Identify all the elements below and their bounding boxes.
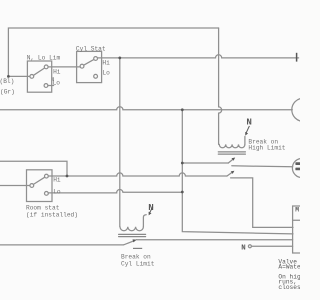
arrowhead high-limit blade 2 bbox=[231, 171, 235, 174]
wire: top rail L2 from left vertical to right vertical bbox=[8, 28, 218, 76]
contact: N,Lo Lim Hi terminal bbox=[44, 65, 48, 69]
wire: bottom N line to relay box bbox=[252, 245, 293, 247]
wire: vertical x182.3 from y110 line down, corner to relay box bbox=[182, 110, 293, 234]
contact: Room stat Lo terminal bbox=[45, 192, 49, 196]
svg-text:Hi: Hi bbox=[53, 177, 61, 184]
arrow shaft N high limit bbox=[246, 126, 249, 133]
heater core cyl limit bbox=[119, 234, 146, 236]
wire: tick above Lo label bbox=[52, 78, 54, 81]
svg-text:Room stat: Room stat bbox=[26, 204, 60, 211]
arrowhead cyl-limit blade bbox=[133, 239, 137, 242]
relay box internal divider bbox=[293, 219, 306, 221]
wire: left line into room stat common bbox=[0, 185, 30, 187]
wire: bottom left line to cyl-limit switch pivot bbox=[0, 244, 123, 246]
switch blade cyl-limit thermal contact bbox=[123, 241, 134, 245]
tick under cyl-limit arrowhead bbox=[133, 247, 142, 249]
wire: cyl-limit switch output to relay box bbox=[137, 239, 293, 241]
wire: N,Lo Lim Hi out to Cyl Stat common bbox=[48, 66, 80, 68]
switch blade N,Lo Lim closed to Hi bbox=[34, 68, 45, 75]
valve motor circle upper bbox=[292, 98, 315, 121]
relay terminal box M bbox=[293, 206, 307, 253]
node room stat Lo junction bbox=[181, 191, 184, 194]
wire: high-limit switch 1 input from x182.3 bbox=[182, 162, 228, 164]
wire: high-limit switch 1 output to motor circle bbox=[232, 166, 293, 167]
contact: Cyl Stat Hi terminal bbox=[94, 57, 98, 61]
wire: long line y110, hop over x119.8 vertical, to valve motor circle bbox=[0, 107, 292, 110]
node high-limit switch feed junction bbox=[181, 162, 184, 165]
switch box Room stat bbox=[27, 170, 53, 202]
contact: Cyl Stat common pole bbox=[80, 64, 84, 68]
svg-text:N, Lo Lim: N, Lo Lim bbox=[27, 54, 61, 61]
contact: Room stat common pole bbox=[30, 184, 34, 188]
heater coil cyl limit bbox=[120, 227, 143, 231]
heater coil high limit bbox=[219, 144, 245, 147]
svg-text:(Bl): (Bl) bbox=[0, 78, 14, 85]
svg-text:N: N bbox=[148, 202, 154, 213]
wire: high-limit heater right lead up to N arrow bbox=[244, 136, 246, 144]
terminal bar at right end of Cyl Stat Hi wire bbox=[296, 53, 298, 62]
arrowhead high-limit blade 1 bbox=[232, 158, 236, 161]
wire: right vertical drop from top rail, hops over y110 line, down to high-limit heater bbox=[219, 28, 222, 144]
node room stat Hi junction bbox=[66, 175, 69, 178]
svg-text:Lo: Lo bbox=[53, 79, 61, 86]
wire: cyl-limit heater right lead up to N arrow bbox=[143, 215, 146, 227]
node y110/x182 junction bbox=[181, 108, 184, 111]
wire: Room stat Hi out, hops over x119.8 and x182.3, to high-limit switch 2 bbox=[48, 173, 227, 176]
switch blade high-limit contact 1 bbox=[228, 159, 233, 163]
node Cyl Stat Hi junction bbox=[118, 57, 121, 60]
contact: Cyl Stat Lo terminal bbox=[94, 74, 98, 78]
motor circle 2 inner bars bbox=[295, 162, 300, 170]
switch box Cyl Stat bbox=[77, 51, 102, 82]
svg-text:Lo: Lo bbox=[53, 188, 61, 195]
contact: Room stat Hi terminal bbox=[45, 174, 49, 178]
arrowhead N high limit bbox=[245, 132, 248, 136]
svg-text:closes: closes bbox=[278, 284, 300, 291]
svg-text:High Limit: High Limit bbox=[248, 145, 285, 152]
svg-text:(Gr): (Gr) bbox=[0, 89, 15, 96]
valve motor circle lower bbox=[292, 158, 311, 177]
switch box N, Lo Lim bbox=[27, 61, 51, 92]
wire: vertical from Cyl Stat Hi junction down to cyl-limit heater coil bbox=[119, 58, 121, 227]
contact: N,Lo Lim Lo terminal bbox=[44, 84, 48, 88]
arrow shaft N cyl limit bbox=[150, 207, 153, 213]
contact: N,Lo Lim common pole bbox=[30, 75, 34, 79]
svg-text:A=Wate: A=Wate bbox=[278, 264, 300, 271]
svg-text:Hi: Hi bbox=[53, 68, 61, 75]
svg-text:(if installed): (if installed) bbox=[26, 212, 78, 219]
switch blade Cyl Stat closed to Hi bbox=[84, 60, 94, 66]
wire: lead from N arrow to high-limit coil bbox=[244, 136, 246, 138]
switch blade high-limit contact 2 bbox=[227, 172, 233, 176]
arrowhead N cyl limit bbox=[149, 212, 152, 216]
svg-text:M: M bbox=[295, 207, 299, 214]
svg-text:Cyl Stat: Cyl Stat bbox=[76, 45, 106, 52]
wire: high-limit switch 2 output, corner down x252.7, to relay box top wire bbox=[231, 178, 293, 228]
svg-text:Lo: Lo bbox=[102, 70, 110, 77]
svg-text:N: N bbox=[241, 244, 245, 252]
svg-text:Hi: Hi bbox=[102, 60, 110, 67]
wire: stub from N,Lo Lim Lo terminal bbox=[48, 85, 54, 87]
heater core high limit bbox=[218, 152, 245, 154]
wire: Cyl Stat Hi out, junction at x119.8, hop over x218.6 vertical, to right edge terminal bbox=[98, 55, 299, 58]
wire: from (Bl) junction to N,Lo Lim common bbox=[8, 75, 30, 77]
svg-text:Cyl Limit: Cyl Limit bbox=[121, 260, 155, 267]
wire: left line y161 cornering down to room stat Hi junction bbox=[0, 161, 67, 176]
node (Bl) junction bbox=[7, 75, 10, 78]
svg-text:N: N bbox=[246, 116, 252, 127]
switch blade Room stat closed to Hi bbox=[33, 177, 44, 184]
wire: Room stat Lo out, hop over x119.8, ends at x182.3 junction bbox=[48, 189, 182, 192]
